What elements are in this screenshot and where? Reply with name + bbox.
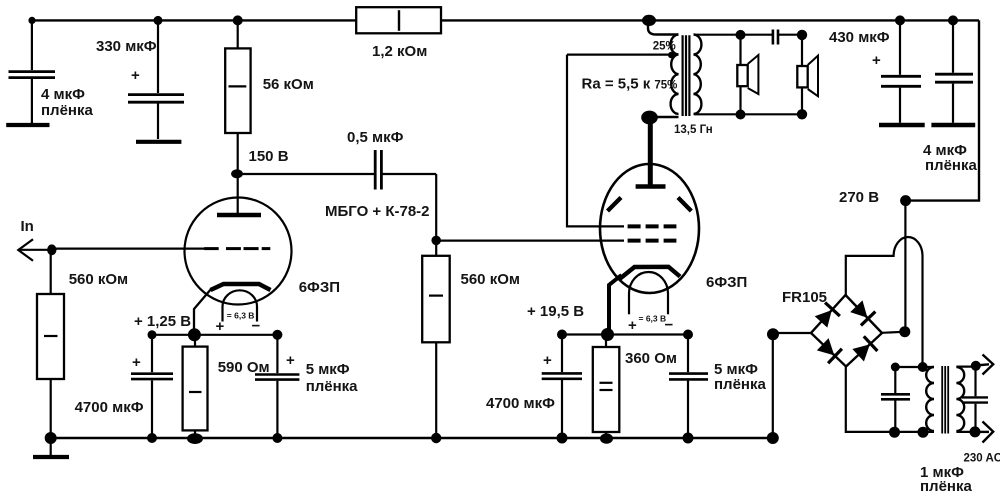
node cathode2 wire right end [683,330,693,340]
svg-text:330 мкФ: 330 мкФ [96,38,157,55]
wire cathode node V2 [562,333,688,335]
tube V2: cathode hat [620,267,681,279]
svg-text:плёнка: плёнка [714,376,766,393]
node speaker2 top [797,30,807,40]
node bridge minus [767,328,779,340]
svg-text:270 В: 270 В [839,189,879,206]
capacitor 0.5uF coupling: wires [238,173,374,175]
node cathode V1 junction [188,328,201,341]
svg-text:560 кОм: 560 кОм [69,271,128,288]
svg-text:+: + [286,352,295,369]
wire bridge bottom corner to PT [846,367,934,432]
node 270V [900,195,911,206]
capacitor 4uF film left: wires [31,20,33,70]
svg-text:= 6,3 В: = 6,3 В [227,311,255,321]
node rail at 4700uF right [557,433,568,444]
svg-text:0,5 мкФ: 0,5 мкФ [347,129,404,146]
capacitor 430uF: plates [881,75,921,78]
svg-text:−: − [665,317,674,334]
node 150V junction [231,169,243,178]
svg-text:−: − [252,318,261,335]
wire top B+ rail right segment [441,19,979,21]
tube V1: cathode lead [194,289,212,335]
tube V1: cathode hat [211,284,271,290]
svg-text:150 В: 150 В [249,148,289,165]
wire bridge plus corner to 270V line [882,332,905,333]
wire OPT secondary bottom [694,113,802,115]
resistor 56 kOhm: body [225,48,250,133]
transformer OPT core [681,35,683,116]
diode bridge bottom-right [851,336,877,362]
node input [47,244,56,255]
wire 270V node down to bridge plus [904,201,906,332]
diode bridge bottom-left [816,337,842,363]
resistor 560 kOhm middle: body [422,256,450,342]
tube V2 6F3P pentode: envelope [600,164,699,293]
node rail at 360 Ohm [600,433,613,443]
resistor 360 Ohm: wires [605,335,607,348]
node OPT tap [668,52,675,59]
wire input to grid V1 [51,248,207,250]
svg-text:+: + [131,67,140,84]
capacitor 4uF film right: wires [952,20,954,72]
tube V2: beam plate left [608,198,622,212]
node speaker1 top [736,30,746,40]
capacitor 330uF: wires [157,20,159,93]
tube V2: grid dashes row 2 [628,239,677,243]
capacitor 4700uF left: plates [131,372,173,375]
capacitor mains X-cap: plates [962,396,988,398]
capacitor 430uF: end bar [879,123,925,127]
svg-text:МБГО + К-78-2: МБГО + К-78-2 [325,203,430,220]
diode bridge top-left [814,303,840,329]
node rail at 560k middle [431,433,441,443]
capacitor 1uF film: plates [881,393,910,396]
svg-text:75%: 75% [654,80,677,92]
transformer PT secondary coil [926,367,934,431]
node top rail at 4uF cap [28,17,35,24]
node rail at 590 Ohm [187,433,203,444]
capacitor 4uF film left: end bar [6,123,49,127]
node rail at 5uF right [683,433,694,444]
resistor 360 Ohm: body [593,347,620,432]
capacitor 4uF film right: end bar [931,123,975,127]
tube V1 6F3P triode: envelope [185,198,292,305]
transformer PT core [941,366,943,434]
tube V1: heater legs [221,307,223,322]
wire bridge top corner to PT with hop [846,237,923,367]
svg-text:+ 1,25 В: + 1,25 В [134,313,191,330]
capacitor 5uF film right: plates [669,372,708,375]
node PT secondary bottom right [918,427,929,438]
svg-text:560 кОм: 560 кОм [461,271,520,288]
svg-text:+ 19,5 В: + 19,5 В [527,303,584,320]
svg-text:4700 мкФ: 4700 мкФ [75,399,144,416]
node mains bottom [970,426,981,437]
transformer PT primary bottom wire [956,431,975,433]
wire top B+ rail left segment [32,19,356,21]
node top rail at 330uF cap [154,16,163,25]
diode bridge top-right [849,299,875,325]
tube V1: heater dome [223,290,258,306]
capacitor 4700uF right: plates [542,372,582,375]
svg-text:+: + [872,52,881,69]
svg-text:Ra = 5,5 к: Ra = 5,5 к [582,76,651,93]
capacitor 5uF film left: plates [255,373,299,376]
resistor 560 kOhm input: wires [50,249,52,294]
transformer PT primary coil [956,367,964,431]
arrow mains bottom [975,431,989,433]
resistor 590 Ohm: body [183,347,208,431]
node rail at bridge minus [767,432,779,444]
capacitor 4700uF right: wires [561,335,563,373]
speaker 1 icon [737,65,747,86]
node top rail at right 4uF [948,15,958,25]
resistor 560 kOhm middle: wires [435,342,437,438]
transformer OPT 25% tap wire [567,53,671,55]
tube V1: anode bar [217,213,261,218]
input arrow In [18,239,33,261]
wire bridge minus to ground rail [773,332,811,334]
svg-text:+: + [543,352,552,369]
svg-text:+: + [628,317,637,334]
node top rail at 56k [233,15,243,25]
transformer PT primary top wire [956,366,975,368]
tube V2: cathode lead thick [609,275,622,335]
svg-text:6ФЗП: 6ФЗП [299,279,340,296]
resistor 56 kOhm: wires [237,20,239,48]
wire cathode node V1 [152,334,277,336]
transformer OPT secondary coil [694,35,702,114]
node top rail at OPT primary [642,15,656,26]
speaker 1 drop wire [739,35,741,115]
svg-text:+: + [132,354,141,371]
node cathode V2 junction [601,328,614,341]
svg-text:56 кОм: 56 кОм [263,76,314,93]
node mains top [971,361,981,371]
tube V2: beam plate right [678,198,691,212]
tube V1: grid dashed line [204,247,219,250]
svg-text:6ФЗП: 6ФЗП [706,274,747,291]
tube V2: heater dome [629,272,668,294]
resistor 560 kOhm input: body [37,294,64,379]
node grid V2 junction [431,236,441,246]
tube V1: anode lead [237,174,239,213]
node cathode2 wire left end [557,330,567,340]
resistor 1.2 kOhm: body [356,7,441,33]
svg-text:FR105: FR105 [782,289,827,306]
capacitor 1uF film: wires [894,367,896,393]
resistor 590 Ohm: wires [194,335,196,347]
tube V2: anode lead thick [648,120,653,185]
svg-text:360 Ом: 360 Ом [625,350,677,367]
transformer OPT primary coil [671,35,679,114]
capacitor 4700uF left: wires [151,335,153,372]
capacitor 4uF film right: plates [935,73,973,76]
speaker 2 drop wire [801,35,803,115]
bridge FR105 diamond [811,295,882,367]
svg-text:плёнка: плёнка [41,102,93,119]
node PT secondary top right [918,362,928,372]
svg-text:430 мкФ: 430 мкФ [829,29,890,46]
node bridge plus [899,326,910,337]
node rail at 5uF left [272,433,282,443]
node rail at 4700uF left [147,433,157,443]
svg-text:4 мкФ: 4 мкФ [41,86,85,103]
tube V2: anode bar [636,184,666,189]
node PT secondary bottom left [889,427,900,438]
svg-text:= 6,3 В: = 6,3 В [639,314,667,324]
capacitor 430uF: wires [899,20,901,74]
svg-text:13,5 Гн: 13,5 Гн [674,124,713,136]
capacitor 4uF film left: plates [9,70,56,73]
svg-text:плёнка: плёнка [925,157,977,174]
capacitor 5uF film left: wires [276,335,278,373]
svg-text:230 AC: 230 AC [964,453,1000,465]
capacitor 330uF: end bar [136,140,181,144]
transformer OPT primary bottom wire [650,116,679,118]
wire bottom ground rail [51,437,773,439]
node rail at input [45,432,57,444]
node OPT primary bottom / anode [641,111,658,125]
node speaker1 bottom [736,110,746,120]
svg-text:плёнка: плёнка [306,378,358,395]
svg-text:In: In [21,218,34,235]
wire right edge down to 270V node [906,20,979,200]
transformer PT secondary top wire [895,366,934,368]
tube V2: heater legs [628,294,630,315]
capacitor 330uF: plates [128,93,184,96]
arrow mains top [976,364,989,365]
svg-text:1,2 кОм: 1,2 кОм [372,43,427,60]
wire feedback to grid V2 [567,55,624,227]
node speaker2 bottom [797,109,807,119]
svg-text:+: + [216,318,225,335]
svg-text:плёнка: плёнка [920,478,972,495]
node cathode wire left end [148,330,157,339]
wire to grid V2 [436,240,624,242]
wire OPT secondary top [694,34,772,36]
svg-text:4700 мкФ: 4700 мкФ [486,395,555,412]
tube V2: grid dashes row 1 [628,224,677,228]
capacitor mains X-cap: wires [974,367,976,397]
capacitor 5uF film right: wires [687,335,689,373]
node top rail at 430uF [895,15,905,25]
ground symbol [50,438,52,455]
capacitor 0.5uF coupling: plates [374,150,377,190]
svg-text:5 мкФ: 5 мкФ [306,361,350,378]
speaker 2 icon [797,66,807,87]
node cathode wire right end [272,330,282,340]
node PT secondary top left [891,363,900,372]
capacitor crossover: plates [772,30,775,45]
wire B+ to OPT primary top [648,20,679,34]
svg-text:25%: 25% [653,41,676,53]
